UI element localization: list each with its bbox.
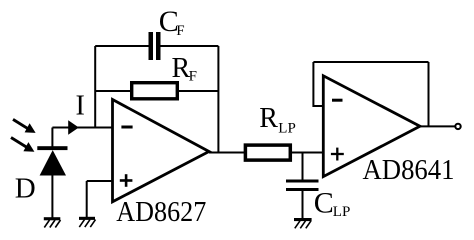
- svg-text:LP: LP: [333, 204, 351, 220]
- wire CLP top stub: [302, 153, 304, 181]
- wire CF left: [95, 45, 149, 47]
- svg-text:F: F: [176, 23, 184, 39]
- light arrow 2: [11, 138, 34, 152]
- wire op-amp2 feedback: [313, 62, 428, 126]
- op-amp U1 AD8627: [113, 100, 210, 202]
- wire input node row: [52, 127, 112, 129]
- wire op-amp1 plus input: [87, 181, 113, 218]
- label RLP: [259, 103, 296, 136]
- svg-text:LP: LP: [278, 120, 296, 136]
- wire diode anode to ground: [51, 175, 53, 218]
- resistor RF: [132, 83, 178, 99]
- label RF: [172, 53, 197, 85]
- wire CF right: [161, 45, 219, 47]
- wire feedback right vertical: [217, 46, 219, 153]
- resistor RLP: [245, 145, 290, 160]
- ground (under CLP): [294, 218, 312, 228]
- wire feedback left vertical: [94, 46, 96, 128]
- svg-text:F: F: [189, 69, 197, 85]
- ground (op-amp1 plus input): [79, 217, 96, 227]
- label CLP: [314, 187, 351, 220]
- svg-text:AD8627: AD8627: [116, 196, 206, 228]
- capacitor CLP: [286, 180, 319, 192]
- wire RF left: [95, 90, 131, 92]
- wire CLP bottom stub: [302, 191, 304, 219]
- capacitor CF: [149, 32, 161, 60]
- wire diode cathode to input node: [51, 128, 53, 147]
- current arrow I: [68, 120, 79, 135]
- svg-text:D: D: [15, 172, 36, 204]
- light arrow 1: [13, 119, 36, 132]
- svg-text:AD8641: AD8641: [363, 154, 455, 186]
- wire RLP to op-amp2 plus input: [290, 152, 323, 154]
- photodiode D: [37, 146, 67, 175]
- svg-text:I: I: [76, 91, 85, 122]
- wire op-amp2 output: [420, 125, 455, 127]
- wire RF right: [179, 90, 218, 92]
- svg-text:R: R: [259, 103, 278, 134]
- ground (under photodiode): [44, 217, 61, 227]
- output terminal: [455, 124, 460, 129]
- label CF: [159, 5, 185, 39]
- op-amp U2 AD8641: [323, 76, 420, 177]
- wire op-amp1 output: [209, 152, 245, 154]
- svg-text:C: C: [314, 187, 334, 220]
